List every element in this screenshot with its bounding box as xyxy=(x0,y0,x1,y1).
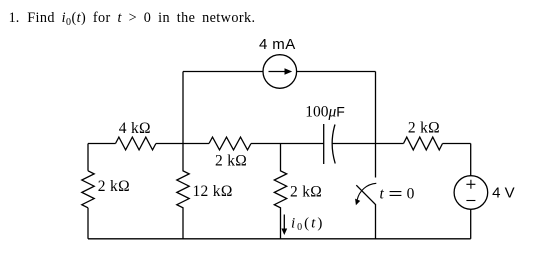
voltage source minus sign xyxy=(466,200,475,202)
voltage source plus sign xyxy=(466,180,475,189)
switch motion arc xyxy=(357,183,376,200)
svg-text:0: 0 xyxy=(407,185,415,202)
svg-text:4 mA: 4 mA xyxy=(259,36,296,53)
svg-text:Find i0(t) for t > 0 in the ne: Find i0(t) for t > 0 in the network. xyxy=(27,10,255,28)
wire: rail to right edge xyxy=(443,143,471,145)
svg-text:t: t xyxy=(380,185,385,202)
svg-text:100μF: 100μF xyxy=(305,104,345,121)
resistor 2 kOhm left vertical xyxy=(82,171,94,208)
svg-text:2 kΩ: 2 kΩ xyxy=(408,120,440,137)
wire: top loop right xyxy=(297,71,376,73)
wire: top rail to middle junction xyxy=(156,143,209,145)
svg-text:1.: 1. xyxy=(9,10,20,26)
switch branch top wire xyxy=(375,144,377,178)
capacitor 100uF left plate xyxy=(323,124,325,164)
svg-text:2 kΩ: 2 kΩ xyxy=(215,152,247,169)
svg-text:4 V: 4 V xyxy=(492,184,515,201)
resistor 2 kOhm third branch vertical xyxy=(274,144,286,239)
resistor 4 kOhm horizontal xyxy=(116,137,156,150)
current arrow i0(t) xyxy=(283,215,285,231)
wire: right vertical top lead xyxy=(470,144,472,176)
wire: left vertical bottom lead xyxy=(87,208,89,239)
resistor 12 kOhm vertical xyxy=(177,144,189,239)
wire: left vertical top lead xyxy=(87,144,89,171)
voltage source 4 V xyxy=(454,176,488,210)
current source arrow xyxy=(269,71,287,73)
svg-text:12 kΩ: 12 kΩ xyxy=(193,183,233,200)
wire: top rail left segment xyxy=(88,143,116,145)
wire: bottom rail xyxy=(88,238,471,240)
wire: rail between 2k and capacitor xyxy=(251,143,324,145)
wire: top loop right vertical xyxy=(375,72,377,144)
title text xyxy=(9,10,256,28)
resistor 2 kOhm top middle xyxy=(209,137,251,150)
svg-text:4 kΩ: 4 kΩ xyxy=(119,120,151,137)
capacitor 100uF right curved plate xyxy=(332,125,335,164)
svg-text:i0(t): i0(t) xyxy=(291,215,324,233)
svg-text:2 kΩ: 2 kΩ xyxy=(290,184,322,201)
wire: top loop left xyxy=(183,71,263,73)
wire: rail right of junction to 2k xyxy=(376,143,404,145)
switch bottom wire xyxy=(375,205,377,239)
switch blade t=0 xyxy=(356,185,376,205)
current source 4 mA xyxy=(263,55,297,89)
switch arc arrowhead xyxy=(355,199,360,206)
wire: right vertical bottom lead xyxy=(470,209,472,239)
wire: capacitor right lead xyxy=(332,143,375,145)
wire: middle branch up to source loop xyxy=(182,72,184,144)
svg-text:2 kΩ: 2 kΩ xyxy=(98,178,130,195)
resistor 2 kOhm top right xyxy=(404,137,443,150)
